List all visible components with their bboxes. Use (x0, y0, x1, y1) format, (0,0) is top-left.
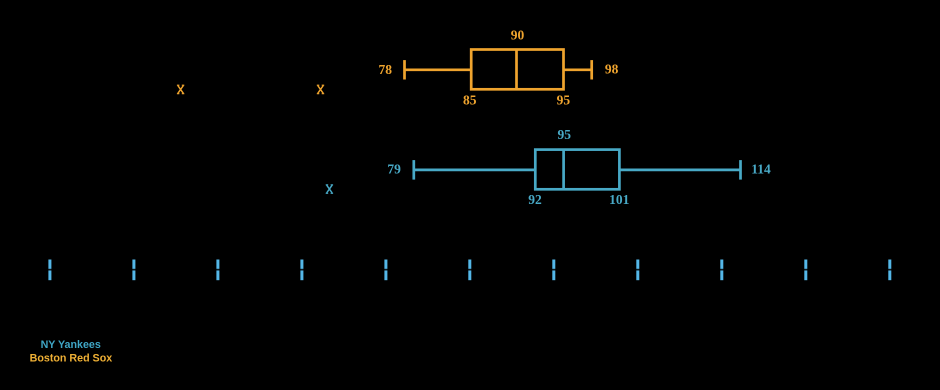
whisker right cap (98) (590, 60, 593, 79)
outlier x mark 2 (orange) (317, 85, 324, 94)
svg-text:79: 79 (387, 162, 401, 177)
svg-text:90: 90 (511, 28, 525, 43)
legend (30, 339, 113, 364)
svg-text:Boston Red Sox: Boston Red Sox (30, 353, 113, 365)
median line (95) (562, 150, 565, 190)
svg-text:NY Yankees: NY Yankees (41, 339, 101, 351)
median line (90) (515, 50, 518, 90)
svg-text:114: 114 (751, 162, 771, 177)
whisker left cap (79) (412, 160, 415, 180)
boxplot series 1 (Boston Red Sox, orange) (405, 50, 592, 90)
svg-text:95: 95 (557, 127, 571, 142)
axis line notch (black band over ticks) (0, 269, 940, 271)
outlier x mark 1 (orange) (177, 85, 184, 94)
svg-text:78: 78 (378, 62, 392, 77)
whisker right line (619, 169, 740, 172)
whisker left cap (78) (403, 60, 406, 79)
box Q1-Q3 (92-101) (535, 150, 619, 190)
boxplot series 2 (NY Yankees, blue) (414, 150, 741, 190)
whisker right line (564, 68, 592, 71)
svg-text:101: 101 (609, 192, 630, 207)
svg-text:98: 98 (605, 62, 619, 77)
whisker right cap (114) (739, 160, 742, 180)
whisker left line (405, 68, 472, 71)
svg-text:95: 95 (557, 92, 571, 107)
axis ticks (11 light blue) (48, 260, 891, 281)
svg-text:85: 85 (463, 92, 477, 107)
outlier x mark (blue) (326, 185, 333, 194)
box Q1-Q3 (85-95) (471, 50, 563, 90)
svg-text:92: 92 (528, 192, 542, 207)
whisker left line (414, 169, 536, 172)
